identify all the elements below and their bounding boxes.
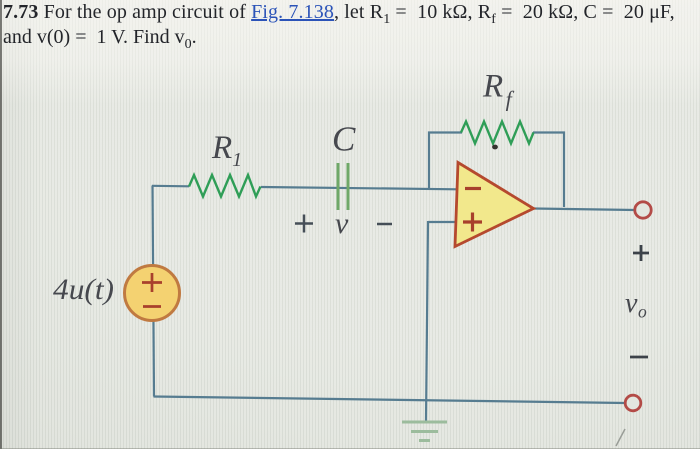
- svg-text:C: C: [332, 120, 356, 159]
- svg-text:v: v: [335, 207, 349, 240]
- svg-text:R1: R1: [211, 130, 242, 171]
- svg-text:4u(t): 4u(t): [53, 274, 114, 306]
- svg-text:vo: vo: [625, 288, 647, 322]
- svg-text:Rf: Rf: [482, 69, 515, 112]
